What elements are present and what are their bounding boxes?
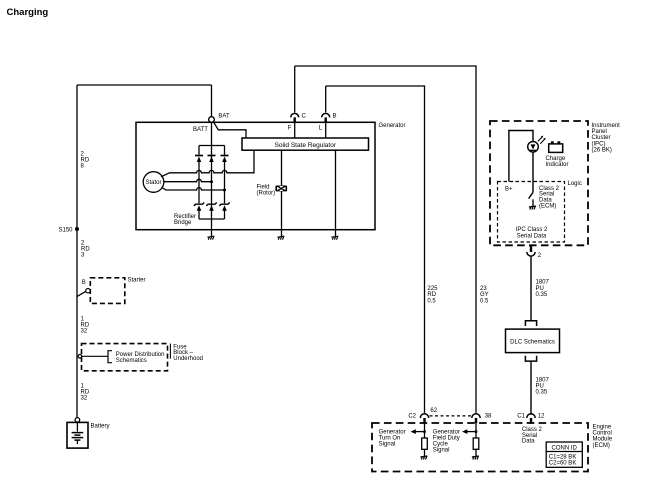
svg-text:Starter: Starter [128,278,146,284]
svg-text:(ECM): (ECM) [539,204,556,210]
svg-text:Indicator: Indicator [546,162,569,168]
svg-text:(ECM): (ECM) [593,443,610,449]
svg-text:IPC Class 2: IPC Class 2 [516,227,548,233]
svg-text:Control: Control [593,431,612,437]
svg-text:Stator: Stator [145,180,161,186]
svg-text:B+: B+ [505,186,513,192]
svg-text:C2=60 BK: C2=60 BK [549,460,577,466]
svg-text:S150: S150 [58,227,73,233]
svg-text:RD: RD [427,292,436,298]
svg-text:(Rotor): (Rotor) [257,190,276,196]
svg-text:1807: 1807 [536,280,550,286]
svg-text:Signal: Signal [433,447,450,453]
svg-text:GY: GY [480,292,489,298]
svg-text:12: 12 [538,414,545,420]
svg-text:Solid State Regulator: Solid State Regulator [275,142,337,149]
svg-text:CONN ID: CONN ID [552,445,578,451]
svg-text:32: 32 [81,329,88,335]
svg-text:C1: C1 [517,414,525,420]
svg-text:32: 32 [81,396,88,402]
svg-text:Engine: Engine [593,424,612,430]
svg-text:PU: PU [536,384,544,390]
svg-text:Instrument: Instrument [592,123,621,129]
svg-text:PU: PU [536,286,544,292]
svg-text:0.5: 0.5 [480,298,489,304]
svg-text:B: B [333,114,337,120]
svg-text:Schematics: Schematics [116,358,147,364]
svg-text:Underhood: Underhood [173,356,203,362]
svg-text:Logic: Logic [568,181,582,187]
svg-text:Cluster: Cluster [592,135,611,141]
svg-text:Data: Data [522,439,535,445]
svg-text:C2: C2 [408,413,416,419]
svg-text:1807: 1807 [536,377,550,383]
svg-text:Data: Data [539,198,552,204]
svg-text:Generator: Generator [379,123,406,129]
svg-text:38: 38 [485,414,492,420]
svg-text:0.35: 0.35 [536,292,548,298]
svg-text:Signal: Signal [379,442,396,448]
svg-text:BAT: BAT [218,113,230,119]
svg-text:Serial Data: Serial Data [517,233,547,239]
svg-text:Battery: Battery [91,423,110,429]
svg-text:Bridge: Bridge [174,220,192,226]
svg-text:0.5: 0.5 [427,298,436,304]
svg-text:Module: Module [593,437,613,443]
svg-text:F: F [288,126,292,132]
svg-text:23: 23 [480,286,487,292]
svg-text:B: B [82,280,86,286]
svg-text:Panel: Panel [592,129,607,135]
svg-text:(IPC): (IPC) [592,141,606,147]
svg-text:BATT: BATT [193,127,208,133]
svg-text:0.35: 0.35 [536,390,548,396]
svg-text:(26 BK): (26 BK) [592,148,612,154]
svg-text:DLC Schematics: DLC Schematics [510,339,555,345]
svg-text:C: C [302,114,307,120]
svg-text:Charging: Charging [7,7,49,18]
svg-text:62: 62 [430,408,437,414]
svg-text:225: 225 [427,286,438,292]
